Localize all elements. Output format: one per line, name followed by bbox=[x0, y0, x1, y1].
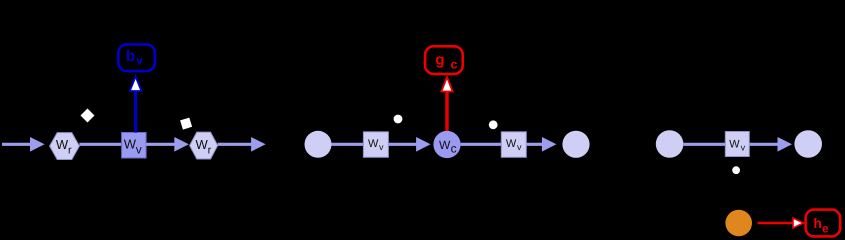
square node W_v left bbox=[122, 133, 147, 159]
white diamond marker 1 bbox=[81, 109, 95, 123]
svg-text:v: v bbox=[136, 143, 142, 157]
white dot marker 3 bbox=[732, 166, 740, 174]
hexagon node W_r 1 bbox=[50, 133, 80, 160]
red arrow w_c to g_c bbox=[441, 77, 452, 131]
orange circle node h bbox=[725, 210, 752, 237]
circle node C bbox=[656, 130, 684, 158]
square node W_v middle 2 bbox=[501, 132, 526, 158]
white dot marker 1 bbox=[394, 115, 403, 124]
svg-text:g: g bbox=[435, 52, 444, 69]
svg-text:W: W bbox=[368, 138, 379, 150]
circle node B bbox=[562, 131, 589, 158]
hexagon node W_r 2 bbox=[190, 132, 218, 159]
circle node w_c bbox=[433, 131, 460, 158]
svg-text:r: r bbox=[208, 144, 212, 156]
svg-text:h: h bbox=[813, 215, 822, 231]
wire input arrow left bbox=[2, 137, 45, 152]
square node W_v middle 1 bbox=[363, 132, 388, 158]
wire w_c to square m2 bbox=[461, 143, 502, 146]
svg-text:b: b bbox=[126, 48, 135, 65]
white dot marker 2 bbox=[489, 120, 498, 129]
wire hexagon1 to square bbox=[79, 143, 121, 146]
square node W_v right bbox=[725, 132, 749, 157]
rounded box g_c bbox=[425, 46, 463, 74]
svg-text:W: W bbox=[439, 138, 451, 152]
circle node A bbox=[305, 131, 332, 158]
svg-text:v: v bbox=[379, 142, 384, 152]
wire circle C to square r bbox=[683, 143, 725, 146]
wire square m2 to circle B with arrow bbox=[526, 137, 556, 152]
blue arrow square to b_v bbox=[130, 77, 142, 133]
svg-text:c: c bbox=[451, 57, 458, 71]
wire square to hexagon2 with arrow bbox=[146, 137, 189, 152]
wire square r to circle D with arrow bbox=[749, 137, 792, 152]
svg-text:W: W bbox=[56, 137, 69, 152]
svg-text:v: v bbox=[136, 53, 143, 67]
rounded box b_v bbox=[118, 44, 155, 71]
wire output arrow left group bbox=[218, 137, 266, 152]
circle node D bbox=[794, 130, 822, 158]
svg-text:W: W bbox=[506, 138, 517, 150]
svg-text:W: W bbox=[124, 136, 137, 151]
svg-text:v: v bbox=[741, 143, 746, 153]
svg-text:W: W bbox=[729, 138, 740, 150]
wire circleA to square m1 bbox=[332, 143, 364, 146]
wire square m1 to w_c with arrow bbox=[388, 137, 430, 152]
red arrow orange circle to h_e bbox=[758, 218, 804, 228]
svg-text:r: r bbox=[68, 144, 72, 156]
svg-text:c: c bbox=[451, 141, 457, 155]
rounded box h_e bbox=[806, 210, 841, 237]
svg-text:e: e bbox=[822, 222, 829, 236]
svg-text:v: v bbox=[517, 142, 522, 152]
white tilted square marker bbox=[180, 118, 192, 130]
svg-text:W: W bbox=[196, 137, 209, 152]
